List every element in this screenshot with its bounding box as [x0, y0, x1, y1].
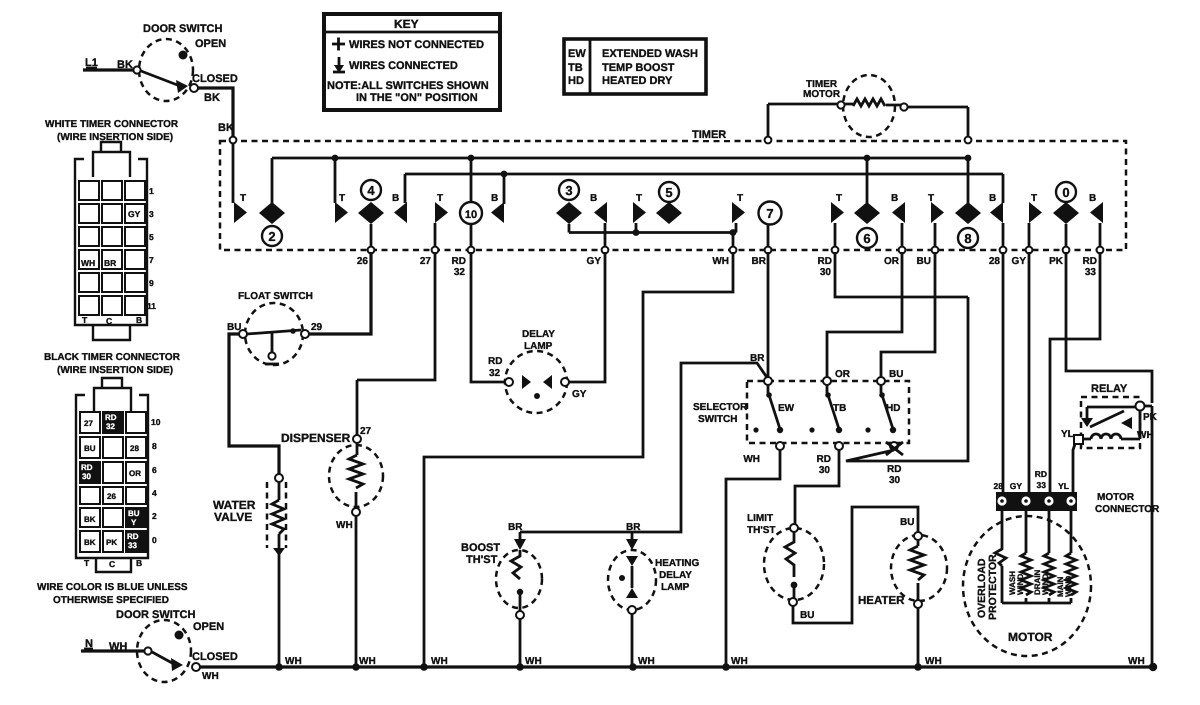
svg-text:GY: GY	[1010, 481, 1023, 491]
svg-text:T: T	[82, 315, 88, 325]
svg-text:EW: EW	[568, 48, 586, 60]
svg-text:B: B	[392, 193, 399, 204]
svg-text:32: 32	[489, 368, 501, 379]
svg-text:WIND.: WIND.	[1041, 571, 1050, 595]
svg-text:33: 33	[128, 541, 137, 550]
svg-text:WIND.: WIND.	[1016, 571, 1025, 595]
svg-text:RD: RD	[81, 463, 93, 472]
svg-text:VALVE: VALVE	[214, 510, 252, 524]
svg-text:C: C	[109, 559, 115, 569]
svg-text:EW: EW	[778, 403, 795, 414]
svg-text:30: 30	[889, 475, 901, 486]
svg-text:RD: RD	[105, 413, 117, 422]
svg-text:T: T	[84, 558, 90, 568]
svg-text:LAMP: LAMP	[661, 582, 690, 593]
svg-text:30: 30	[82, 472, 91, 481]
svg-text:PK: PK	[1049, 256, 1064, 267]
svg-text:B: B	[590, 193, 597, 204]
svg-text:OTHERWISE SPECIFIED: OTHERWISE SPECIFIED	[53, 595, 169, 606]
svg-text:32: 32	[454, 267, 466, 278]
svg-text:NOTE:ALL SWITCHES SHOWN: NOTE:ALL SWITCHES SHOWN	[327, 80, 489, 92]
svg-text:27: 27	[420, 256, 432, 267]
svg-text:CONNECTOR: CONNECTOR	[1095, 504, 1160, 515]
svg-text:30: 30	[819, 465, 831, 476]
svg-text:TEMP BOOST: TEMP BOOST	[602, 62, 675, 74]
svg-text:10: 10	[465, 209, 477, 221]
svg-text:B: B	[136, 315, 142, 325]
svg-text:7: 7	[766, 206, 773, 221]
svg-text:CLOSED: CLOSED	[192, 73, 238, 85]
svg-text:WH: WH	[1128, 656, 1145, 667]
svg-text:MOTOR: MOTOR	[803, 89, 841, 100]
svg-text:WHITE TIMER CONNECTOR: WHITE TIMER CONNECTOR	[45, 119, 179, 130]
svg-text:28: 28	[994, 481, 1004, 491]
svg-text:DISPENSER: DISPENSER	[281, 431, 351, 445]
svg-text:BU: BU	[128, 509, 140, 518]
svg-text:GY: GY	[128, 209, 141, 219]
svg-text:GY: GY	[572, 389, 587, 400]
svg-text:WIRE COLOR IS BLUE UNLESS: WIRE COLOR IS BLUE UNLESS	[37, 582, 188, 593]
svg-text:RD: RD	[1035, 469, 1047, 479]
svg-text:WH: WH	[712, 256, 729, 267]
svg-text:33: 33	[1085, 267, 1097, 278]
svg-text:RD: RD	[887, 464, 901, 475]
svg-text:BU: BU	[900, 517, 914, 528]
svg-text:GY: GY	[587, 256, 602, 267]
svg-text:RD: RD	[488, 356, 502, 367]
svg-text:B: B	[1089, 193, 1096, 204]
svg-text:9: 9	[149, 278, 154, 288]
svg-text:OPEN: OPEN	[195, 38, 226, 50]
svg-text:BLACK TIMER CONNECTOR: BLACK TIMER CONNECTOR	[44, 352, 181, 363]
svg-text:5: 5	[665, 185, 672, 200]
svg-text:5: 5	[149, 232, 154, 242]
svg-text:T: T	[836, 193, 842, 204]
svg-text:8: 8	[964, 231, 971, 246]
svg-text:26: 26	[357, 256, 369, 267]
svg-text:BK: BK	[218, 122, 234, 134]
svg-text:WIND.: WIND.	[1064, 573, 1073, 597]
svg-text:27: 27	[84, 419, 93, 428]
svg-text:2: 2	[152, 511, 157, 521]
svg-text:T: T	[437, 193, 443, 204]
svg-text:CLOSED: CLOSED	[192, 651, 238, 663]
svg-text:WH: WH	[743, 454, 760, 465]
svg-text:WH: WH	[431, 656, 448, 667]
svg-text:B: B	[491, 193, 498, 204]
svg-text:T: T	[737, 193, 743, 204]
svg-text:WH: WH	[202, 671, 219, 682]
svg-text:HEATER: HEATER	[858, 595, 905, 607]
svg-text:T: T	[240, 193, 246, 204]
svg-text:WH: WH	[285, 656, 302, 667]
svg-text:6: 6	[152, 465, 157, 475]
svg-text:26: 26	[107, 492, 116, 501]
svg-text:TB: TB	[568, 62, 583, 74]
svg-text:4: 4	[152, 488, 157, 498]
svg-text:WIRES CONNECTED: WIRES CONNECTED	[349, 60, 458, 72]
svg-text:6: 6	[863, 231, 870, 246]
svg-text:OR: OR	[129, 469, 141, 478]
svg-text:C: C	[106, 316, 112, 326]
svg-text:MOTOR: MOTOR	[1008, 630, 1053, 644]
svg-text:SELECTOR: SELECTOR	[693, 402, 748, 413]
svg-text:B: B	[136, 558, 142, 568]
svg-text:RELAY: RELAY	[1091, 383, 1128, 395]
svg-text:PROTECTOR: PROTECTOR	[987, 554, 999, 620]
svg-text:RD: RD	[818, 256, 832, 267]
svg-text:4: 4	[367, 183, 375, 198]
svg-text:BK: BK	[204, 92, 220, 104]
svg-text:WIRES NOT CONNECTED: WIRES NOT CONNECTED	[349, 39, 484, 51]
svg-text:YL: YL	[1058, 481, 1069, 491]
svg-text:Y: Y	[131, 518, 137, 527]
svg-text:BR: BR	[626, 522, 641, 533]
svg-text:BU: BU	[889, 369, 903, 380]
svg-text:WH: WH	[525, 656, 542, 667]
svg-text:T: T	[339, 193, 345, 204]
svg-text:WH: WH	[81, 258, 95, 268]
svg-text:32: 32	[106, 422, 115, 431]
svg-text:BK: BK	[84, 538, 96, 547]
svg-text:T: T	[1031, 193, 1037, 204]
svg-text:WH: WH	[638, 656, 655, 667]
svg-text:DELAY: DELAY	[659, 570, 692, 581]
svg-text:IN THE "ON" POSITION: IN THE "ON" POSITION	[356, 92, 478, 104]
svg-text:DELAY: DELAY	[522, 329, 555, 340]
svg-text:GY: GY	[1012, 256, 1027, 267]
svg-text:RD: RD	[127, 532, 139, 541]
svg-text:RD: RD	[1083, 256, 1097, 267]
svg-text:28: 28	[989, 256, 1001, 267]
svg-text:3: 3	[149, 209, 154, 219]
svg-text:7: 7	[149, 255, 154, 265]
svg-text:BR: BR	[508, 522, 523, 533]
svg-text:(WIRE INSERTION SIDE): (WIRE INSERTION SIDE)	[57, 365, 173, 376]
svg-text:RD: RD	[452, 256, 466, 267]
svg-text:29: 29	[311, 322, 323, 333]
svg-text:3: 3	[565, 183, 572, 198]
svg-text:B: B	[989, 193, 996, 204]
svg-text:BOOST: BOOST	[461, 542, 500, 554]
svg-text:BK: BK	[84, 515, 96, 524]
svg-text:HEATING: HEATING	[655, 558, 699, 569]
svg-text:OR: OR	[884, 256, 900, 267]
svg-text:30: 30	[820, 267, 832, 278]
svg-text:BU: BU	[800, 610, 814, 621]
svg-text:10: 10	[151, 417, 161, 427]
svg-text:BU: BU	[84, 444, 96, 453]
svg-text:28: 28	[130, 444, 139, 453]
svg-text:TH'ST: TH'ST	[466, 554, 498, 566]
svg-text:PK: PK	[106, 538, 117, 547]
svg-text:WH: WH	[359, 656, 376, 667]
svg-text:B: B	[891, 193, 898, 204]
svg-text:DOOR SWITCH: DOOR SWITCH	[143, 23, 222, 35]
svg-text:EXTENDED WASH: EXTENDED WASH	[602, 48, 698, 60]
svg-text:OPEN: OPEN	[193, 621, 224, 633]
svg-text:FLOAT SWITCH: FLOAT SWITCH	[238, 291, 313, 302]
svg-text:HD: HD	[568, 75, 584, 87]
svg-text:DOOR SWITCH: DOOR SWITCH	[116, 609, 195, 621]
svg-text:2: 2	[268, 229, 275, 244]
svg-text:OR: OR	[835, 369, 851, 380]
svg-text:LIMIT: LIMIT	[747, 513, 773, 524]
svg-text:RD: RD	[817, 454, 831, 465]
svg-text:BR: BR	[750, 353, 765, 364]
svg-text:BR: BR	[752, 256, 767, 267]
svg-text:TIMER: TIMER	[692, 129, 726, 141]
svg-text:HD: HD	[886, 403, 900, 414]
svg-text:33: 33	[1037, 480, 1047, 490]
svg-text:11: 11	[147, 301, 156, 311]
svg-text:TB: TB	[833, 403, 846, 414]
svg-text:BR: BR	[104, 258, 116, 268]
svg-text:SWITCH: SWITCH	[698, 414, 737, 425]
svg-text:27: 27	[360, 426, 372, 437]
svg-text:BU: BU	[917, 256, 931, 267]
svg-text:KEY: KEY	[394, 17, 419, 31]
svg-text:0: 0	[1062, 185, 1069, 200]
svg-text:MOTOR: MOTOR	[1097, 492, 1135, 503]
svg-text:HEATED DRY: HEATED DRY	[602, 75, 673, 87]
svg-text:WH: WH	[336, 520, 353, 531]
svg-text:WH: WH	[925, 656, 942, 667]
svg-text:8: 8	[152, 441, 157, 451]
svg-text:0: 0	[152, 535, 157, 545]
svg-text:YL: YL	[1061, 429, 1074, 440]
svg-text:WH: WH	[731, 656, 748, 667]
svg-text:PK: PK	[1143, 412, 1158, 423]
svg-text:TH'ST: TH'ST	[747, 525, 776, 536]
svg-text:1: 1	[149, 186, 154, 196]
svg-text:T: T	[636, 193, 642, 204]
